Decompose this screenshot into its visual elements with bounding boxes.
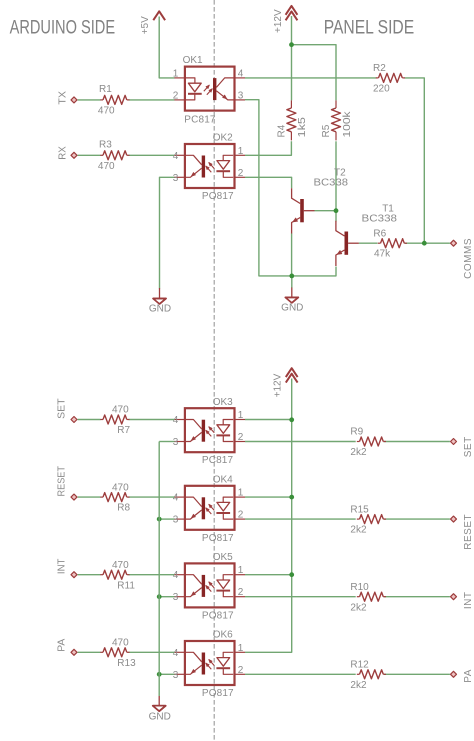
svg-text:BC338: BC338 [362, 214, 398, 225]
svg-text:3: 3 [173, 592, 179, 603]
svg-text:1: 1 [238, 643, 244, 654]
svg-text:+12V: +12V [273, 9, 284, 33]
svg-text:3: 3 [238, 90, 244, 101]
svg-text:OK5: OK5 [213, 552, 233, 563]
svg-text:OK2: OK2 [213, 133, 233, 144]
svg-text:2k2: 2k2 [350, 525, 367, 536]
svg-text:PANEL SIDE: PANEL SIDE [324, 17, 415, 39]
svg-text:220: 220 [373, 83, 390, 94]
svg-text:PC817: PC817 [202, 455, 234, 466]
svg-text:470: 470 [98, 161, 115, 172]
svg-text:2k2: 2k2 [350, 602, 367, 613]
svg-text:3: 3 [173, 515, 179, 526]
svg-text:OK3: OK3 [213, 397, 233, 408]
svg-text:R5: R5 [321, 124, 332, 137]
svg-text:OK1: OK1 [183, 55, 203, 66]
svg-text:PO817: PO817 [202, 688, 234, 699]
svg-text:470: 470 [112, 560, 129, 571]
svg-text:PO817: PO817 [202, 191, 234, 202]
svg-text:1: 1 [238, 488, 244, 499]
svg-text:4: 4 [173, 493, 179, 504]
svg-text:2: 2 [173, 90, 179, 101]
svg-text:+5V: +5V [140, 16, 151, 34]
svg-text:2: 2 [238, 432, 244, 443]
svg-text:PO817: PO817 [202, 533, 234, 544]
svg-text:2: 2 [238, 665, 244, 676]
svg-text:GND: GND [149, 712, 171, 723]
svg-text:1: 1 [238, 565, 244, 576]
svg-text:R4: R4 [277, 124, 288, 137]
svg-text:R10: R10 [350, 582, 369, 593]
svg-text:SET: SET [463, 436, 474, 457]
svg-text:BC338: BC338 [314, 177, 349, 188]
svg-text:R11: R11 [117, 580, 135, 591]
svg-text:470: 470 [112, 482, 129, 493]
svg-text:2: 2 [238, 587, 244, 598]
svg-text:R1: R1 [99, 84, 112, 95]
svg-text:4: 4 [173, 415, 179, 426]
svg-text:RESET: RESET [57, 466, 68, 497]
svg-text:3: 3 [173, 437, 179, 448]
svg-text:1: 1 [238, 410, 244, 421]
svg-text:SET: SET [57, 398, 68, 419]
svg-text:TX: TX [57, 91, 68, 105]
svg-text:2k2: 2k2 [350, 680, 367, 691]
svg-text:3: 3 [173, 670, 179, 681]
svg-text:COMMS: COMMS [463, 238, 474, 279]
svg-text:2k2: 2k2 [350, 447, 367, 458]
svg-text:PA: PA [463, 669, 474, 683]
svg-text:4: 4 [173, 151, 179, 162]
svg-text:+12V: +12V [272, 373, 283, 397]
svg-text:1k5: 1k5 [297, 116, 308, 137]
svg-text:1: 1 [173, 68, 179, 79]
svg-text:INT: INT [463, 592, 474, 610]
svg-text:PC817: PC817 [184, 115, 216, 126]
svg-text:470: 470 [112, 405, 129, 416]
svg-text:R12: R12 [350, 660, 369, 671]
svg-text:1: 1 [238, 146, 244, 157]
svg-text:OK4: OK4 [213, 475, 233, 486]
svg-text:47k: 47k [374, 249, 391, 260]
svg-text:4: 4 [173, 648, 179, 659]
svg-text:R13: R13 [117, 658, 136, 669]
svg-text:GND: GND [149, 304, 171, 315]
svg-text:INT: INT [57, 559, 68, 575]
svg-text:2: 2 [238, 168, 244, 179]
svg-text:OK6: OK6 [213, 630, 233, 641]
svg-text:RX: RX [57, 146, 68, 160]
svg-text:4: 4 [238, 68, 244, 79]
svg-text:470: 470 [112, 638, 129, 649]
svg-text:R6: R6 [373, 228, 386, 239]
svg-text:3: 3 [173, 173, 179, 184]
svg-text:ARDUINO SIDE: ARDUINO SIDE [10, 17, 116, 39]
svg-text:100k: 100k [342, 110, 353, 137]
svg-text:R7: R7 [117, 425, 130, 436]
svg-text:2: 2 [238, 510, 244, 521]
svg-text:PA: PA [57, 638, 68, 651]
svg-text:R9: R9 [350, 427, 363, 438]
svg-text:470: 470 [98, 105, 115, 116]
svg-text:R15: R15 [350, 504, 369, 515]
svg-text:GND: GND [281, 302, 303, 313]
svg-text:RESET: RESET [463, 514, 474, 550]
svg-text:4: 4 [173, 570, 179, 581]
svg-text:PO817: PO817 [202, 610, 234, 621]
svg-text:R8: R8 [117, 503, 130, 514]
svg-text:R2: R2 [373, 63, 386, 74]
svg-text:R3: R3 [99, 140, 112, 151]
